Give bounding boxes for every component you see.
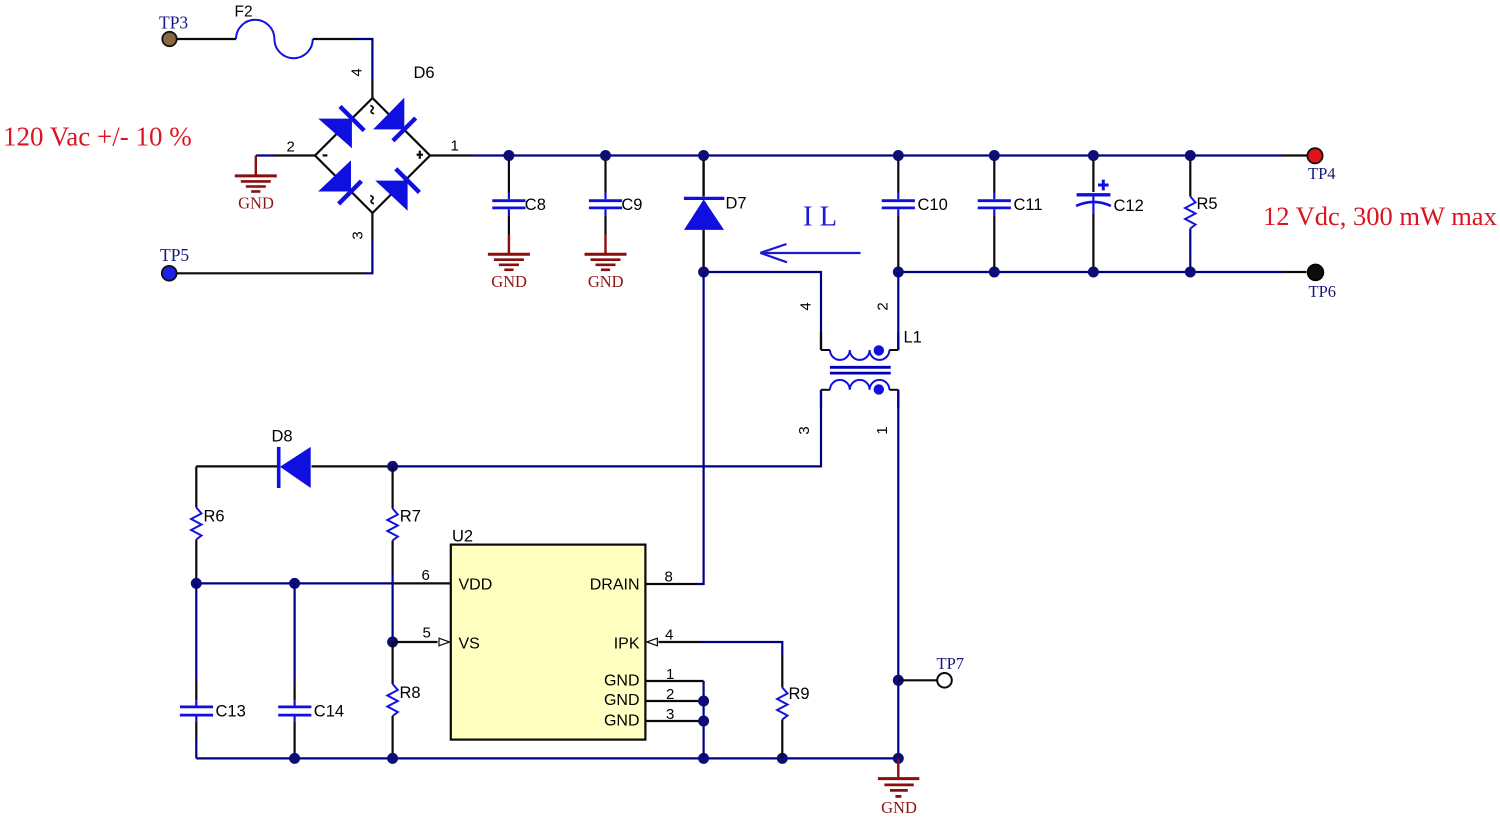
svg-text:2: 2: [666, 686, 674, 703]
wire bridge pin2 to ground: [256, 154, 315, 156]
IPK input arrow (pin 4): [647, 638, 658, 646]
L1 core lines: [830, 367, 891, 373]
testpoint TP5: [162, 266, 177, 281]
pin number 4 (bridge): [349, 68, 366, 76]
pin number 3 (L1): [796, 426, 813, 434]
wire bottom ground rail: [196, 757, 898, 759]
svg-text:R6: R6: [204, 508, 225, 526]
resistor R9: [777, 688, 787, 759]
svg-text:4: 4: [665, 627, 673, 644]
capacitor C14: [278, 583, 311, 758]
label C11: [1014, 196, 1043, 214]
pin number 2 (U2 GND): [666, 686, 674, 703]
wire U2 GND pin1: [646, 681, 704, 758]
junction dot D7 anode: [698, 267, 709, 278]
pin number 2 (L1): [875, 302, 892, 310]
label D8: [272, 428, 293, 446]
svg-text:C12: C12: [1114, 197, 1144, 215]
junction dot VDD-R6: [191, 578, 202, 589]
junction dot R7 top: [387, 461, 398, 472]
svg-text:4: 4: [349, 68, 366, 76]
label L1: [904, 329, 922, 347]
label C14: [314, 703, 344, 721]
pin number 4 (U2 IPK): [665, 627, 673, 644]
testpoint TP7: [937, 673, 952, 688]
fuse F2: [236, 20, 313, 58]
svg-text:D6: D6: [414, 64, 435, 82]
wire IPK net: [659, 642, 783, 688]
pin number 1 (U2 GND): [666, 666, 674, 683]
junction dot GND pin3: [698, 716, 709, 727]
pin number 8 (U2 DRAIN): [665, 569, 673, 586]
label GND (C9): [588, 272, 624, 291]
testpoint TP4: [1307, 148, 1322, 163]
junction dot VDD-C14: [289, 578, 300, 589]
transformer L1 primary winding (pins 4-2): [821, 332, 898, 360]
svg-text:R5: R5: [1197, 195, 1218, 213]
ground GND (bridge input): [235, 156, 277, 192]
capacitor C9: [589, 160, 622, 235]
label GND (bottom): [881, 798, 917, 817]
bridge rectifier D6 diamond outline: [315, 98, 430, 213]
junction dots bottom rail: [289, 753, 904, 764]
diode D6-C (lower-left): [318, 160, 361, 204]
diode D6-B (upper-right): [373, 98, 416, 141]
wire to TP7: [898, 679, 937, 681]
svg-text:C10: C10: [918, 196, 948, 214]
svg-text:2: 2: [875, 302, 892, 310]
resistor R6: [191, 466, 201, 583]
wire TP5 to bridge pin3: [177, 213, 373, 273]
svg-text:U2: U2: [452, 528, 473, 546]
diode D6-A (upper-left): [318, 106, 364, 148]
wire feedback net left segment: [196, 465, 392, 467]
wire lower output rail: [898, 271, 1306, 273]
svg-text:GND: GND: [604, 692, 640, 709]
wire L1 pin3 to feedback net: [393, 390, 821, 467]
pin number 1 (bridge): [451, 138, 459, 155]
svg-text:2: 2: [287, 139, 295, 156]
svg-text:C13: C13: [216, 703, 246, 721]
label 12 Vdc, 300 mW max: [1263, 201, 1497, 231]
label I L: [803, 202, 837, 233]
svg-text:L1: L1: [904, 329, 922, 347]
U2 pin name IPK: [614, 635, 640, 652]
wire TP3 to fuse: [177, 38, 236, 40]
svg-text:GND: GND: [604, 672, 640, 689]
label 120 Vac +/- 10 %: [3, 122, 192, 152]
junction dot TP7: [893, 675, 904, 686]
svg-text:TP5: TP5: [160, 245, 189, 265]
svg-text:1: 1: [874, 426, 891, 434]
capacitor C13: [180, 583, 213, 758]
U2 pin name VS: [459, 635, 480, 652]
pin number 3 (bridge): [350, 231, 367, 239]
wire L1 pin1 to ground net: [897, 390, 899, 759]
diode D8: [279, 447, 311, 488]
junction dot VS-R7: [387, 637, 398, 648]
wire VS net: [393, 641, 438, 643]
label TP5: [160, 245, 189, 265]
svg-text:VS: VS: [459, 635, 480, 652]
pin number 5 (U2 VS): [423, 625, 431, 642]
junction dots lower rail: [893, 267, 1196, 278]
svg-text:8: 8: [665, 569, 673, 586]
testpoint TP6: [1308, 264, 1324, 280]
wire VDD net: [196, 582, 450, 584]
svg-text:12 Vdc, 300 mW max: 12 Vdc, 300 mW max: [1263, 201, 1497, 231]
bridge ~ mark top: [370, 106, 374, 114]
annotation arrow IL: [760, 244, 860, 262]
label D7: [726, 195, 747, 213]
svg-text:GND: GND: [238, 194, 274, 213]
ground GND (C8): [488, 235, 530, 270]
svg-text:C11: C11: [1014, 196, 1043, 214]
pin number 2 (bridge): [287, 139, 295, 156]
U2 pin name GND1: [604, 672, 640, 689]
svg-text:GND: GND: [604, 713, 640, 730]
svg-text:GND: GND: [881, 798, 917, 817]
capacitor C11: [978, 160, 1011, 267]
label GND (C8): [491, 272, 527, 291]
bridge minus mark: [323, 154, 328, 156]
U2 pin name GND2: [604, 692, 640, 709]
svg-text:R9: R9: [789, 685, 810, 703]
label TP6: [1309, 282, 1337, 301]
pin number 4 (L1): [798, 302, 815, 310]
capacitor C12 (polarized): [1076, 160, 1111, 267]
resistor R8: [387, 642, 397, 758]
capacitor C8: [492, 160, 525, 235]
svg-text:5: 5: [423, 625, 431, 642]
label R8: [400, 684, 421, 702]
L1 phase dot top: [874, 345, 884, 355]
svg-text:1: 1: [451, 138, 459, 155]
svg-text:C9: C9: [621, 196, 642, 214]
svg-text:TP4: TP4: [1308, 164, 1336, 183]
svg-text:6: 6: [422, 567, 430, 584]
pin number 3 (U2 GND): [666, 706, 674, 723]
diode D7: [684, 160, 725, 267]
label GND (bridge input): [238, 194, 274, 213]
U2 pin name VDD: [459, 577, 493, 594]
resistor R5: [1185, 160, 1195, 267]
wire D7 anode node to transformer pin4: [704, 272, 821, 350]
label C12: [1114, 197, 1144, 215]
label U2: [452, 528, 473, 546]
svg-text:R7: R7: [400, 508, 421, 526]
label C10: [918, 196, 948, 214]
svg-text:DRAIN: DRAIN: [590, 577, 640, 594]
svg-text:D8: D8: [272, 428, 293, 446]
testpoint TP3: [162, 32, 176, 46]
svg-text:GND: GND: [588, 272, 624, 291]
label D6: [414, 64, 435, 82]
label R9: [789, 685, 810, 703]
svg-text:GND: GND: [491, 272, 527, 291]
svg-text:3: 3: [666, 706, 674, 723]
diode D6-D (lower-right): [375, 169, 419, 211]
transformer L1 secondary winding (pins 3-1): [821, 380, 898, 408]
label TP3: [159, 13, 188, 33]
svg-text:TP3: TP3: [159, 13, 188, 33]
label R7: [400, 508, 421, 526]
wire U2 GND pin2: [646, 700, 704, 702]
capacitor C10: [882, 160, 915, 267]
svg-text:I L: I L: [803, 202, 837, 233]
pin number 6 (U2 VDD): [422, 567, 430, 584]
wire fuse to bridge pin4: [313, 39, 373, 98]
svg-text:C8: C8: [525, 196, 546, 214]
svg-text:3: 3: [350, 231, 367, 239]
svg-text:TP7: TP7: [937, 654, 965, 673]
bridge ~ mark bottom: [370, 196, 374, 204]
svg-text:TP6: TP6: [1309, 282, 1337, 301]
resistor R7: [387, 466, 397, 642]
label C8: [525, 196, 546, 214]
svg-text:R8: R8: [400, 684, 421, 702]
wire L1 pin2 to lower rail: [897, 272, 899, 350]
pin number 1 (L1): [874, 426, 891, 434]
svg-text:F2: F2: [235, 4, 253, 21]
wire U2 GND pin3: [646, 720, 704, 722]
svg-text:C14: C14: [314, 703, 344, 721]
junction dots top rail: [503, 150, 1195, 161]
L1 phase dot bottom: [874, 384, 884, 394]
label TP4: [1308, 164, 1336, 183]
junction dot GND pin2: [698, 696, 709, 707]
label R6: [204, 508, 225, 526]
label TP7: [937, 654, 965, 673]
wire D7 anode to DRAIN: [646, 272, 704, 584]
svg-text:D7: D7: [726, 195, 747, 213]
svg-text:VDD: VDD: [459, 577, 493, 594]
U2 pin name GND3: [604, 713, 640, 730]
label C13: [216, 703, 246, 721]
svg-text:1: 1: [666, 666, 674, 683]
bridge plus mark: [417, 151, 423, 159]
C12 plus mark: [1098, 180, 1109, 191]
svg-text:3: 3: [796, 426, 813, 434]
ground GND (bottom): [878, 758, 919, 796]
label F2: [235, 4, 253, 21]
svg-text:IPK: IPK: [614, 635, 640, 652]
label R5: [1197, 195, 1218, 213]
wire top rail (+DC net): [430, 154, 1308, 156]
op-amp/controller U2 body: [451, 545, 646, 740]
label C9: [621, 196, 642, 214]
VS input arrow (pin 5): [439, 638, 450, 646]
ground GND (C9): [585, 235, 627, 270]
svg-text:4: 4: [798, 302, 815, 310]
svg-text:120 Vac +/- 10 %: 120 Vac +/- 10 %: [3, 122, 192, 152]
U2 pin name DRAIN: [590, 577, 640, 594]
